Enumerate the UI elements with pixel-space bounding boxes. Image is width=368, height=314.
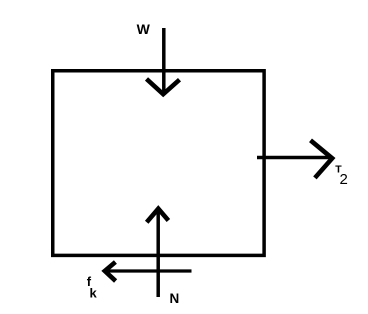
svg-text:k: k <box>90 286 98 301</box>
svg-text:N: N <box>170 291 180 306</box>
svg-text:2: 2 <box>340 171 348 188</box>
svg-text:W: W <box>137 21 151 37</box>
